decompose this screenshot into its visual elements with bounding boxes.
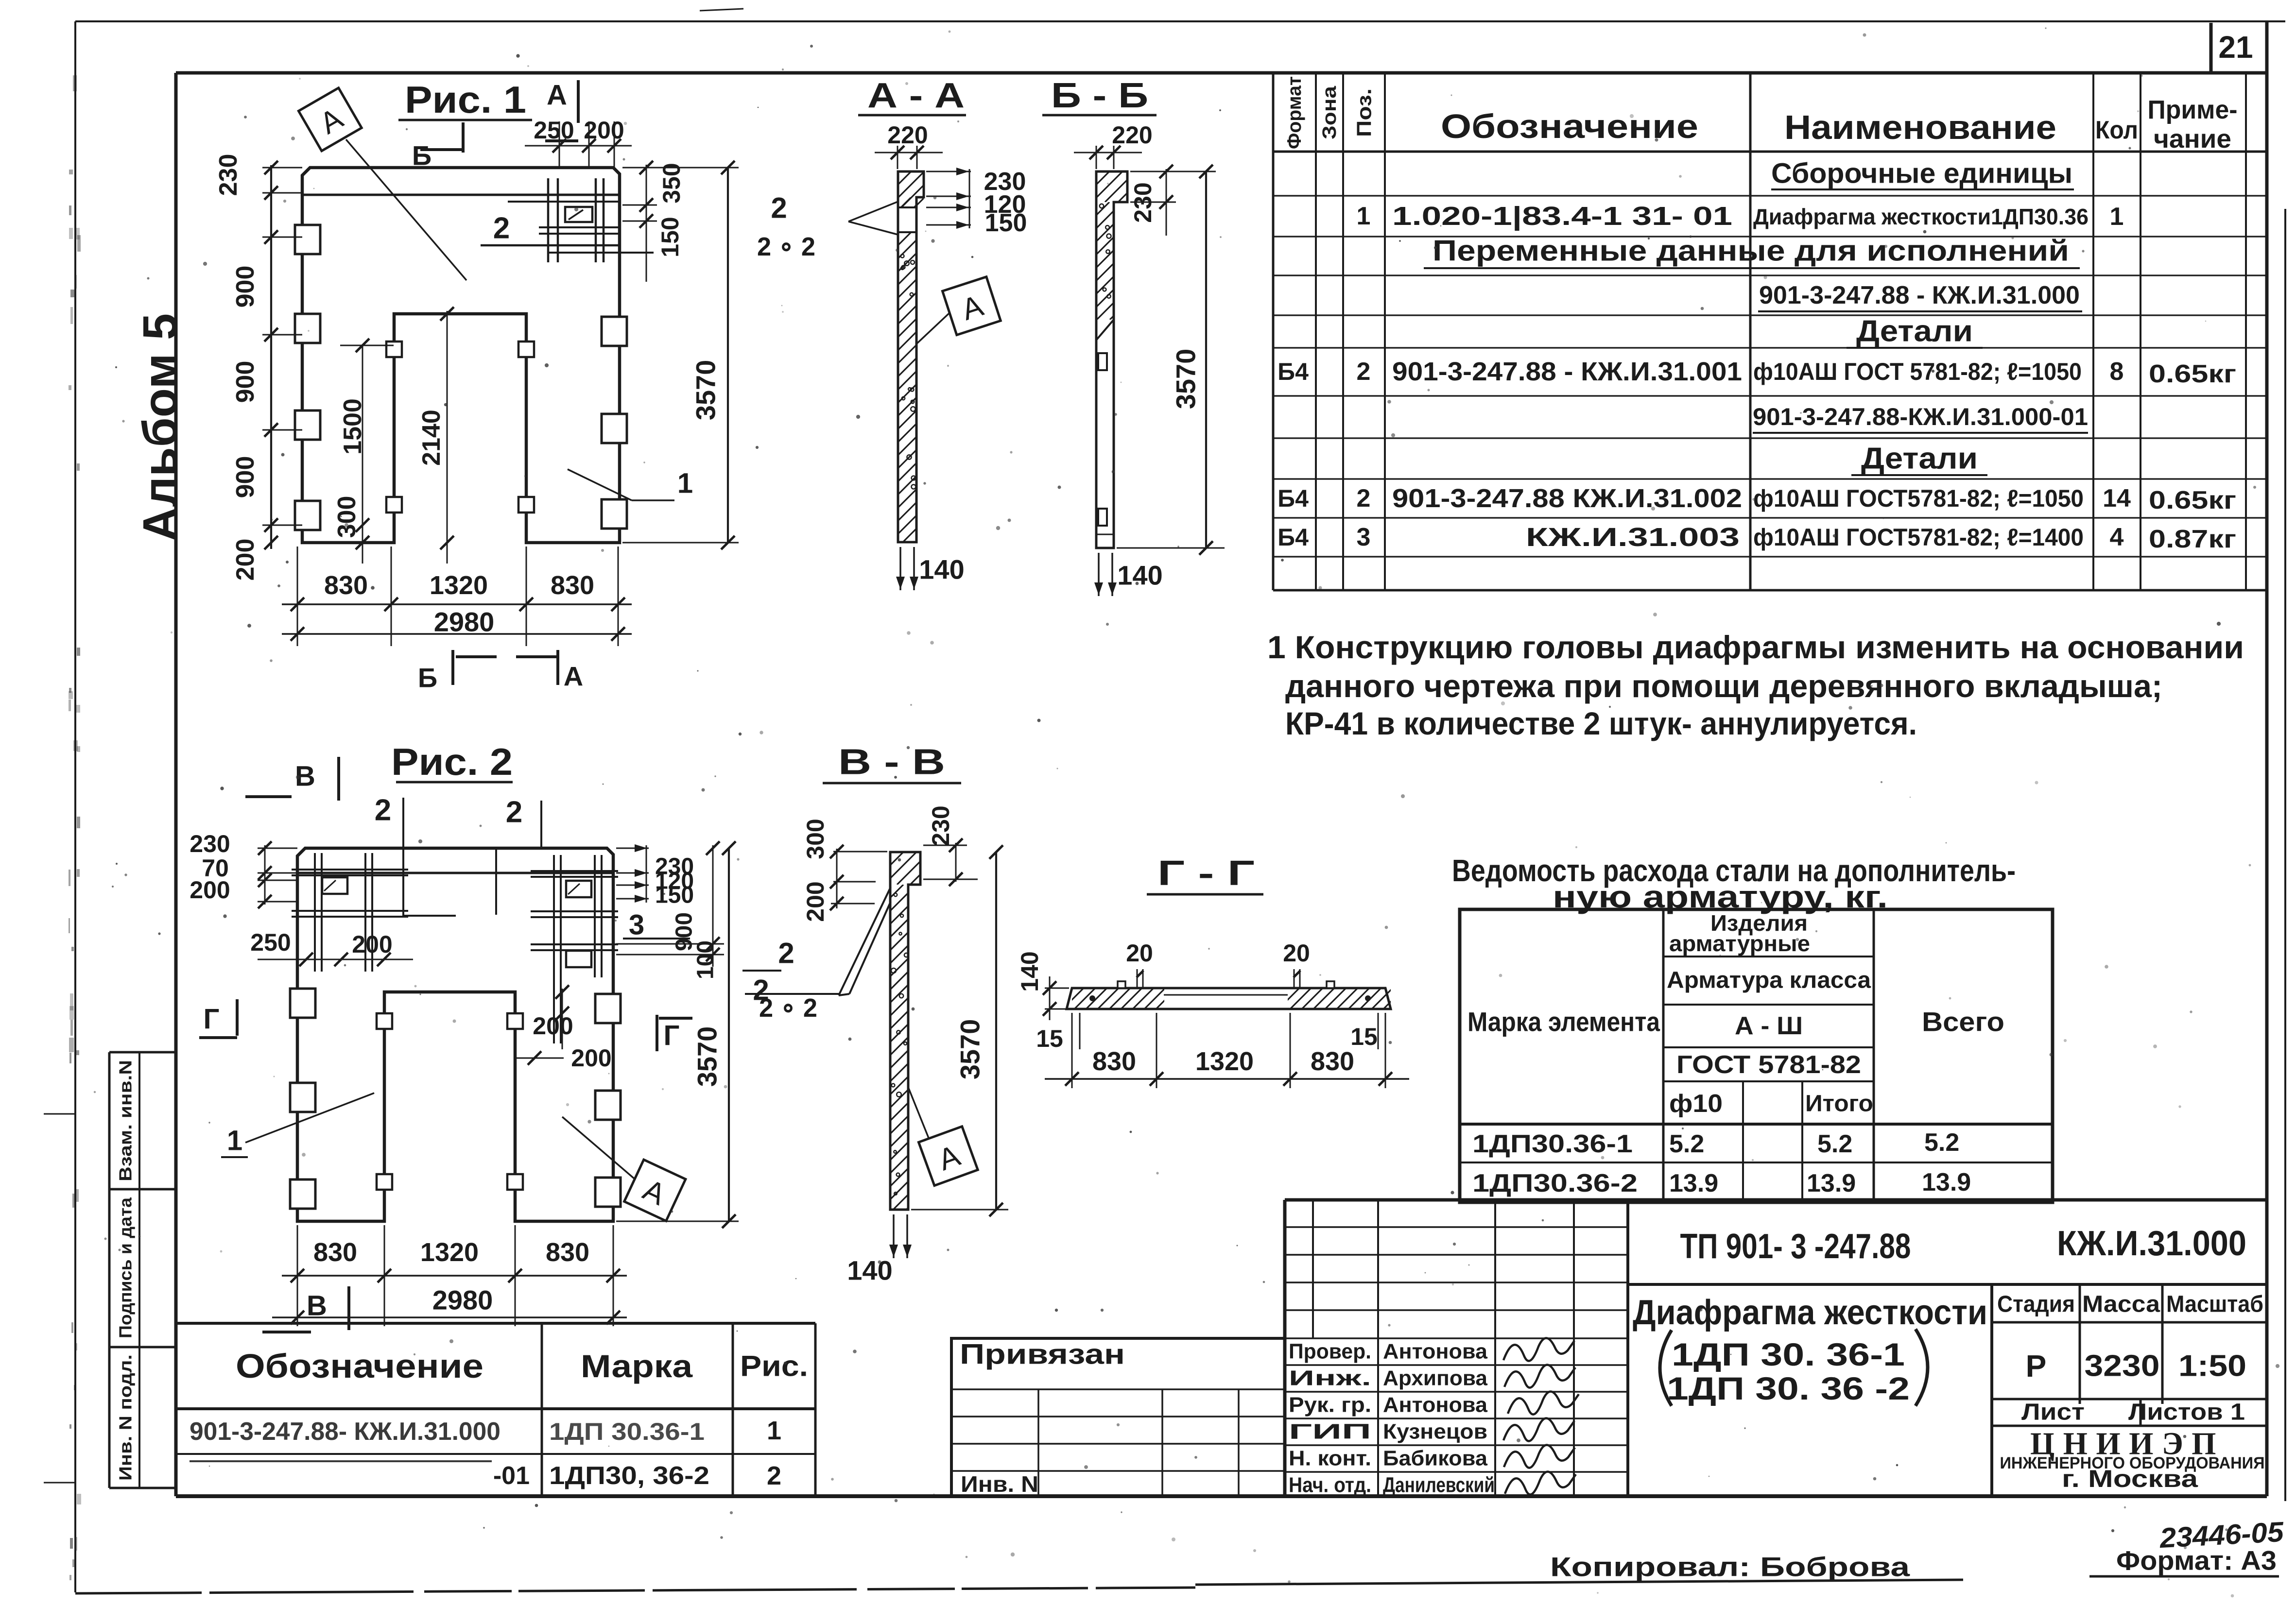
- svg-text:Рис. 2: Рис. 2: [391, 740, 513, 783]
- svg-text:200: 200: [352, 931, 392, 958]
- svg-text:20: 20: [1126, 940, 1153, 967]
- svg-text:Листов 1: Листов 1: [2128, 1400, 2245, 1425]
- svg-text:140: 140: [847, 1255, 892, 1286]
- svg-text:Марка: Марка: [581, 1348, 693, 1384]
- svg-text:1 Конструкцию головы диафрагм: 1 Конструкцию головы диафрагмы изменить …: [1267, 629, 2244, 665]
- svg-text:Б4: Б4: [1277, 524, 1309, 551]
- svg-text:21: 21: [2218, 30, 2253, 65]
- svg-text:1320: 1320: [430, 571, 488, 600]
- svg-text:Копировал: Боброва: Копировал: Боброва: [1550, 1552, 1910, 1582]
- svg-text:1320: 1320: [1195, 1047, 1254, 1076]
- svg-text:250: 250: [534, 117, 574, 144]
- svg-text:200: 200: [533, 1012, 573, 1040]
- svg-text:Кол: Кол: [2095, 116, 2138, 144]
- svg-text:А - Ш: А - Ш: [1735, 1012, 1803, 1040]
- svg-text:200: 200: [802, 881, 829, 922]
- svg-text:15: 15: [1350, 1023, 1378, 1050]
- svg-text:1: 1: [677, 468, 693, 499]
- svg-text:Итого: Итого: [1805, 1091, 1873, 1117]
- svg-text:2: 2: [506, 796, 522, 829]
- svg-text:900: 900: [231, 266, 259, 308]
- svg-text:Обозначение: Обозначение: [236, 1347, 483, 1385]
- svg-text:Привязан: Привязан: [960, 1339, 1125, 1370]
- svg-text:Данилевский: Данилевский: [1383, 1473, 1495, 1497]
- svg-text:2: 2: [771, 192, 787, 224]
- svg-text:2: 2: [375, 794, 391, 827]
- svg-text:901-3-247.88-КЖ.И.31.000-01: 901-3-247.88-КЖ.И.31.000-01: [1753, 403, 2088, 430]
- svg-text:ГИП: ГИП: [1289, 1420, 1371, 1444]
- svg-text:140: 140: [1117, 560, 1162, 591]
- svg-text:830: 830: [313, 1238, 357, 1267]
- svg-text:Антонова: Антонова: [1383, 1393, 1488, 1417]
- svg-text:Инж.: Инж.: [1289, 1367, 1371, 1390]
- svg-text:1ДП30.36-2: 1ДП30.36-2: [1472, 1169, 1638, 1197]
- svg-text:5.2: 5.2: [1669, 1130, 1704, 1158]
- svg-text:20: 20: [1283, 940, 1310, 967]
- svg-text:230: 230: [190, 830, 230, 857]
- svg-text:830: 830: [324, 571, 368, 600]
- svg-text:350: 350: [658, 163, 685, 203]
- svg-text:Сборочные единицы: Сборочные единицы: [1771, 158, 2072, 189]
- svg-text:В - В: В - В: [838, 742, 945, 782]
- svg-text:Стадия: Стадия: [1997, 1292, 2075, 1317]
- svg-text:Приме-: Приме-: [2148, 95, 2238, 124]
- svg-text:200: 200: [571, 1044, 611, 1072]
- svg-text:4: 4: [2110, 523, 2124, 551]
- svg-text:Арматура класса: Арматура класса: [1667, 968, 1871, 993]
- svg-text:Г: Г: [664, 1020, 680, 1052]
- svg-text:г. Москва: г. Москва: [2062, 1465, 2198, 1492]
- svg-text:1320: 1320: [420, 1238, 479, 1267]
- svg-text:2980: 2980: [434, 607, 495, 637]
- svg-text:1ДП 30.36-1: 1ДП 30.36-1: [549, 1418, 705, 1445]
- svg-text:Бабикова: Бабикова: [1383, 1447, 1488, 1470]
- svg-text:Зона: Зона: [1319, 85, 1340, 139]
- svg-text:Обозначение: Обозначение: [1441, 107, 1698, 145]
- svg-text:Б - Б: Б - Б: [1051, 76, 1148, 115]
- svg-text:Б: Б: [418, 663, 437, 693]
- svg-text:830: 830: [551, 571, 594, 600]
- svg-text:1:50: 1:50: [2178, 1350, 2246, 1383]
- svg-text:А: А: [564, 661, 583, 692]
- svg-text:140: 140: [1016, 951, 1043, 991]
- svg-text:Формат: А3: Формат: А3: [2116, 1545, 2277, 1576]
- svg-text:Кузнецов: Кузнецов: [1383, 1420, 1487, 1444]
- svg-text:3570: 3570: [1171, 349, 1201, 410]
- svg-text:0.87кг: 0.87кг: [2149, 525, 2236, 553]
- svg-text:200: 200: [190, 876, 230, 904]
- svg-text:2140: 2140: [417, 410, 446, 466]
- svg-text:-01: -01: [493, 1462, 530, 1490]
- svg-text:3570: 3570: [692, 1026, 723, 1087]
- svg-text:200: 200: [584, 117, 624, 144]
- svg-text:А: А: [547, 80, 567, 111]
- svg-text:ф10АШ ГОСТ5781-82; ℓ=1400: ф10АШ ГОСТ5781-82; ℓ=1400: [1753, 524, 2084, 551]
- svg-text:Поз.: Поз.: [1353, 88, 1376, 137]
- svg-text:901-3-247.88 - КЖ.И.31.000: 901-3-247.88 - КЖ.И.31.000: [1759, 281, 2080, 309]
- svg-text:3230: 3230: [2085, 1350, 2160, 1383]
- svg-text:5.2: 5.2: [1924, 1128, 1959, 1157]
- svg-text:Инв. N: Инв. N: [961, 1471, 1038, 1497]
- svg-text:Наименование: Наименование: [1784, 108, 2056, 146]
- svg-text:1ДП 30. 36 -2: 1ДП 30. 36 -2: [1667, 1370, 1910, 1406]
- svg-text:1: 1: [1357, 202, 1371, 230]
- svg-text:900: 900: [231, 361, 259, 403]
- svg-text:Диафрагма жесткости1ДП30.36: Диафрагма жесткости1ДП30.36: [1753, 204, 2089, 229]
- svg-text:901-3-247.88 - КЖ.И.31.001: 901-3-247.88 - КЖ.И.31.001: [1392, 357, 1742, 386]
- svg-text:900: 900: [231, 456, 259, 498]
- svg-text:Провер.: Провер.: [1289, 1340, 1371, 1364]
- svg-text:3570: 3570: [691, 360, 721, 421]
- svg-text:3: 3: [1357, 523, 1371, 551]
- svg-text:2: 2: [1357, 484, 1371, 513]
- svg-text:901-3-247.88- КЖ.И.31.000: 901-3-247.88- КЖ.И.31.000: [190, 1418, 501, 1446]
- svg-text:250: 250: [250, 929, 291, 956]
- svg-text:14: 14: [2103, 484, 2131, 513]
- svg-text:3570: 3570: [955, 1019, 985, 1080]
- svg-text:Рис.: Рис.: [740, 1350, 808, 1383]
- svg-text:13.9: 13.9: [1669, 1169, 1718, 1197]
- svg-text:830: 830: [1092, 1047, 1136, 1076]
- svg-text:0.65кг: 0.65кг: [2149, 360, 2236, 388]
- svg-text:Антонова: Антонова: [1383, 1340, 1488, 1364]
- svg-text:100: 100: [693, 940, 719, 979]
- svg-text:Р: Р: [2026, 1349, 2047, 1384]
- svg-text:данного чертежа при помощи дер: данного чертежа при помощи деревянного в…: [1285, 668, 2162, 704]
- svg-text:1500: 1500: [339, 398, 367, 455]
- svg-text:300: 300: [802, 819, 829, 859]
- svg-text:Переменные данные для исполнен: Переменные данные для исполнений: [1433, 235, 2069, 267]
- svg-text:Нач. отд.: Нач. отд.: [1289, 1473, 1371, 1497]
- svg-text:КЖ.И.31.000: КЖ.И.31.000: [2057, 1224, 2246, 1263]
- svg-text:чание: чание: [2154, 124, 2231, 154]
- svg-text:Формат: Формат: [1284, 76, 1305, 149]
- svg-text:Г - Г: Г - Г: [1157, 854, 1255, 893]
- svg-text:ГОСТ 5781-82: ГОСТ 5781-82: [1676, 1051, 1861, 1079]
- svg-text:230: 230: [1129, 182, 1157, 222]
- svg-text:8: 8: [2110, 358, 2124, 386]
- svg-text:1ДП30, 36-2: 1ДП30, 36-2: [549, 1462, 709, 1490]
- svg-text:КЖ.И.31.003: КЖ.И.31.003: [1526, 523, 1740, 552]
- svg-text:2 ∘ 2: 2 ∘ 2: [759, 993, 817, 1023]
- svg-text:2: 2: [1357, 358, 1371, 386]
- svg-text:2: 2: [493, 212, 510, 245]
- svg-text:арматурные: арматурные: [1669, 931, 1810, 956]
- svg-text:150: 150: [655, 883, 694, 908]
- svg-text:2: 2: [767, 1461, 781, 1490]
- svg-text:13.9: 13.9: [1922, 1168, 1971, 1196]
- svg-text:220: 220: [1112, 121, 1152, 149]
- svg-text:А - А: А - А: [867, 76, 965, 115]
- svg-text:300: 300: [333, 496, 361, 538]
- svg-text:Г: Г: [204, 1004, 220, 1035]
- svg-text:3: 3: [629, 909, 644, 941]
- svg-text:1: 1: [2110, 203, 2124, 231]
- svg-text:830: 830: [1311, 1047, 1354, 1076]
- svg-text:Всего: Всего: [1922, 1007, 2004, 1037]
- svg-text:140: 140: [919, 554, 964, 585]
- svg-text:Альбом 5: Альбом 5: [133, 313, 188, 542]
- svg-text:5.2: 5.2: [1817, 1130, 1852, 1158]
- svg-text:Масса: Масса: [2082, 1292, 2160, 1317]
- svg-text:ф10: ф10: [1669, 1090, 1723, 1118]
- svg-text:ТП 901- 3 -247.88: ТП 901- 3 -247.88: [1680, 1227, 1911, 1266]
- svg-text:Рук. гр.: Рук. гр.: [1289, 1393, 1371, 1417]
- svg-text:830: 830: [546, 1238, 589, 1267]
- svg-text:230: 230: [214, 154, 242, 196]
- svg-text:Взам. инв.N: Взам. инв.N: [116, 1060, 136, 1181]
- svg-text:Б4: Б4: [1277, 485, 1309, 512]
- svg-text:220: 220: [887, 121, 928, 149]
- svg-text:Марка элемента: Марка элемента: [1467, 1007, 1660, 1037]
- svg-text:Детали: Детали: [1861, 442, 1978, 476]
- svg-text:Инв. N подл.: Инв. N подл.: [116, 1354, 136, 1481]
- svg-text:КР-41 в количестве 2 штук- анн: КР-41 в количестве 2 штук- аннулируется.: [1285, 705, 1917, 741]
- svg-text:Лист: Лист: [2021, 1400, 2085, 1425]
- svg-text:Б: Б: [412, 140, 432, 171]
- svg-text:Рис. 1: Рис. 1: [405, 78, 526, 121]
- svg-text:901-3-247.88 КЖ.И.31.002: 901-3-247.88 КЖ.И.31.002: [1392, 484, 1742, 513]
- svg-text:ф10АШ ГОСТ5781-82; ℓ=1050: ф10АШ ГОСТ5781-82; ℓ=1050: [1753, 485, 2084, 512]
- svg-text:2: 2: [778, 937, 794, 970]
- svg-text:13.9: 13.9: [1807, 1169, 1856, 1197]
- svg-text:1: 1: [767, 1416, 781, 1445]
- svg-text:15: 15: [1036, 1025, 1063, 1052]
- svg-text:150: 150: [985, 209, 1027, 237]
- svg-text:ф10АШ ГОСТ 5781-82; ℓ=1050: ф10АШ ГОСТ 5781-82; ℓ=1050: [1753, 358, 2082, 385]
- svg-text:0.65кг: 0.65кг: [2149, 486, 2236, 514]
- svg-text:В: В: [307, 1290, 327, 1322]
- svg-text:Подпись и дата: Подпись и дата: [116, 1197, 136, 1338]
- svg-text:Архипова: Архипова: [1383, 1367, 1488, 1390]
- svg-text:Б4: Б4: [1277, 358, 1309, 385]
- svg-text:2 ∘ 2: 2 ∘ 2: [757, 232, 815, 261]
- svg-text:Н. конт.: Н. конт.: [1289, 1447, 1371, 1470]
- svg-text:Детали: Детали: [1856, 315, 1973, 348]
- svg-text:2980: 2980: [432, 1285, 493, 1316]
- svg-text:1ДП 30. 36-1: 1ДП 30. 36-1: [1672, 1336, 1905, 1372]
- svg-text:200: 200: [231, 539, 259, 581]
- svg-text:Диафрагма жесткости: Диафрагма жесткости: [1633, 1293, 1987, 1332]
- svg-text:Масштаб: Масштаб: [2166, 1292, 2263, 1317]
- svg-text:230: 230: [927, 805, 954, 846]
- svg-text:1.020-1|83.4-1 31- 01: 1.020-1|83.4-1 31- 01: [1392, 202, 1732, 231]
- svg-text:1ДП30.36-1: 1ДП30.36-1: [1472, 1130, 1633, 1158]
- svg-text:1: 1: [227, 1125, 242, 1157]
- svg-text:150: 150: [656, 217, 684, 257]
